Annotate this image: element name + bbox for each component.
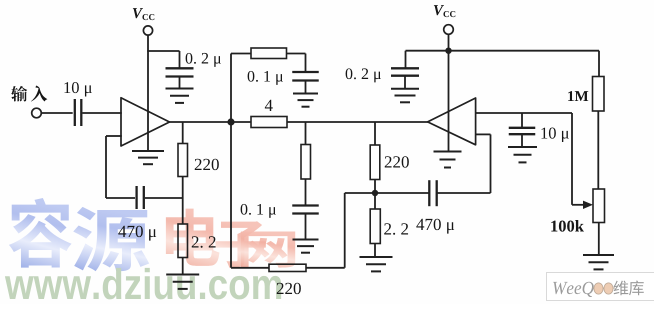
wire output to R1 (182, 122, 184, 144)
capacitor C7 0.2μ (346, 68, 419, 82)
capacitor C5 0.1μ (241, 204, 319, 218)
wire U1 feedback loop (106, 135, 122, 137)
label input 输入 (11, 85, 47, 101)
Vcc terminal (right) (434, 5, 455, 34)
wire U2 input from wiper (476, 112, 572, 114)
wire node down to R8 (230, 122, 232, 268)
node B junction (372, 190, 378, 196)
wire R8 to node B (306, 267, 345, 269)
ground under R7 (360, 256, 393, 258)
wire C5 to ground (305, 214, 307, 240)
wire riser node to R3 (230, 54, 232, 123)
op-amp U2 (428, 98, 476, 145)
Vcc terminal (left) (133, 8, 154, 35)
resistor R8 220 (bottom) (269, 264, 306, 294)
node Vcc2 junction (445, 48, 451, 54)
resistor R3 (top, unlabeled) (251, 48, 287, 59)
wire C4 to ground (305, 81, 307, 94)
wire Vcc2 down through U2 to ground (448, 35, 450, 153)
watermark 容源 (blue site logo) (9, 198, 149, 271)
wire input bus to C8 (521, 113, 523, 128)
ground under R2 (166, 274, 199, 276)
capacitor C4 0.1μ (248, 71, 319, 85)
wire input to C1 (41, 112, 72, 114)
wire C3 to R1/R2 junction (145, 197, 183, 199)
ground under C4 (293, 93, 318, 95)
capacitor C6 470μ (416, 180, 454, 233)
wire R9 to RP1 (597, 111, 599, 189)
wire Vcc1 down through U1 to ground (147, 35, 149, 151)
wire bus to R6 (374, 122, 376, 145)
wire C6 to U2 gain pin (438, 192, 491, 194)
resistor R7 2.2 (370, 209, 408, 244)
wire C8 to ground (521, 134, 523, 147)
wire C7 to ground (404, 76, 406, 89)
ground under C2 (166, 88, 194, 90)
wire RP1 to ground (598, 223, 600, 256)
ground under U1 (132, 150, 164, 152)
ground under U2 (434, 151, 462, 153)
capacitor C8 10μ (509, 128, 569, 143)
resistor R9 1M (568, 77, 604, 112)
wire U1 output (169, 121, 232, 123)
wire R7 to ground (374, 244, 376, 258)
potentiometer RP1 100k (551, 189, 604, 232)
wire Vcc2 branch to C7 (406, 50, 449, 52)
capacitor C3 470μ (118, 186, 156, 241)
capacitor C1 10μ (64, 82, 91, 126)
ground under RP1 (583, 254, 614, 256)
watermark WeeQoo维库 box (547, 273, 654, 301)
wire R2 to ground (182, 258, 184, 275)
resistor R5 (vertical, unlabeled) (301, 145, 311, 180)
wire main bus through R4 (231, 121, 251, 123)
capacitor C2 0.2μ (166, 53, 221, 77)
wire R5 to C5 (305, 179, 307, 206)
resistor R1 220 (178, 144, 219, 177)
wire C1 to U1 input (83, 112, 122, 114)
resistor R2 2.2 (178, 224, 216, 258)
wire R6 to node B (374, 180, 376, 210)
wire Vcc1 branch to C2 (147, 50, 179, 52)
wire C2 to ground (179, 77, 181, 89)
wire bus to R5 (305, 122, 307, 145)
op-amp U1 (121, 98, 170, 146)
node main output junction (227, 118, 234, 125)
wire R1 to R2 (182, 177, 184, 225)
watermark www.dziuu.com (5, 268, 281, 300)
resistor R4 4 (251, 100, 287, 128)
wire Vcc2 to 1M column (449, 50, 600, 52)
watermark 电子网 (pink site logo) (166, 209, 295, 268)
wiper arrow into RP1 (572, 204, 585, 206)
ground under C8 (508, 146, 537, 148)
input terminal J1 (32, 108, 42, 118)
ground under C5 (293, 239, 319, 241)
resistor R6 220 (370, 145, 409, 180)
wire R3 to C4 (287, 53, 306, 55)
ground under C7 (391, 88, 419, 90)
